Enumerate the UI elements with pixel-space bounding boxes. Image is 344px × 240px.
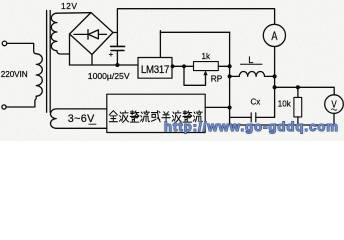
label L underline <box>241 63 263 65</box>
hanzi huo <box>151 111 160 122</box>
wire Cx branch left <box>230 116 252 118</box>
resistor R1 10k body <box>294 97 302 117</box>
wire top rail (bridge + to ammeter) <box>117 9 274 46</box>
capacitor C1 polarity plus <box>109 53 112 56</box>
capacitor Cx plates <box>251 113 256 122</box>
junction dots <box>115 63 300 110</box>
voltmeter tilde <box>331 109 337 110</box>
wire bridge right corner stub <box>113 32 117 34</box>
wire voltmeter bottom lead <box>333 113 335 125</box>
voltmeter PV1 circle <box>325 95 344 114</box>
wire S1 bottom to bridge left corner node <box>57 51 70 54</box>
svg-text:A: A <box>271 31 277 43</box>
svg-text:12V: 12V <box>61 1 77 11</box>
svg-text:L: L <box>248 55 253 65</box>
ammeter PA1 circle <box>263 24 285 46</box>
wire 10k bottom lead <box>297 117 299 125</box>
hanzi zheng <box>130 111 139 123</box>
transformer secondary winding S1 (12V) <box>51 13 57 51</box>
hanzi bo2 <box>172 111 181 123</box>
svg-text:1000µ/25V: 1000µ/25V <box>88 71 130 81</box>
wire 10k top lead <box>297 87 299 97</box>
wire S2 bottom lead to box <box>56 127 107 129</box>
inductor L winding <box>230 72 275 77</box>
hanzi zheng2 <box>183 111 192 123</box>
hanzi liu2 <box>193 111 202 122</box>
wire upper rail (LM317 to right rail) <box>160 31 229 33</box>
wire RP right end to rail <box>218 65 229 67</box>
svg-text:1k: 1k <box>202 52 211 61</box>
wire S2 top lead to box <box>56 108 107 110</box>
svg-text:10k: 10k <box>278 100 292 109</box>
svg-text:220VIN: 220VIN <box>1 70 28 79</box>
wire box output to right rail <box>205 106 229 108</box>
wire primary bottom to J2 <box>6 96 36 107</box>
hanzi ban <box>162 112 170 123</box>
capacitor C1 1000u/25V plates <box>111 45 125 47</box>
svg-text:Cx: Cx <box>251 98 261 107</box>
wire right vertical rail <box>229 32 231 107</box>
terminal J1 (AC input top) <box>2 41 7 46</box>
transformer T1 primary winding <box>36 54 42 96</box>
diode inside bridge <box>74 30 107 40</box>
svg-text:RP: RP <box>211 73 223 83</box>
wire LM317 output to RP <box>172 65 194 67</box>
wire RP wiper loop <box>184 66 206 85</box>
label 3~6V underline <box>89 123 96 125</box>
wire C1 bottom lead <box>116 51 118 66</box>
transformer core <box>47 11 51 113</box>
wire bridge left corner down to minus rail <box>69 34 71 65</box>
svg-text:LM317: LM317 <box>141 64 170 76</box>
wire ammeter bottom down through junctions to Cx corner <box>274 47 276 118</box>
wire minus mid rail to LM317 <box>70 64 139 66</box>
hanzi bo <box>119 111 128 123</box>
svg-text:3~6V: 3~6V <box>68 113 95 125</box>
hanzi liu <box>141 111 150 122</box>
rectifier mode box <box>107 94 205 132</box>
transformer secondary winding S2 (3-6V) <box>50 109 56 128</box>
wire Cx branch right <box>256 116 275 118</box>
wire bridge bottom corner down <box>91 55 93 66</box>
wire output rail to voltmeter <box>275 87 335 95</box>
wire bottom rail <box>230 108 334 126</box>
wire J1 to primary top <box>7 43 36 53</box>
bridge rectifier B1 (diamond) <box>70 13 114 55</box>
svg-text:http://www.go-gddq.com: http://www.go-gddq.com <box>164 119 339 134</box>
potentiometer RP body (1k) <box>194 62 219 71</box>
svg-text:V: V <box>331 99 336 110</box>
regulator U1 LM317 box <box>138 58 172 79</box>
wire S1 top to bridge top corner <box>57 12 91 15</box>
rectifier mode label (hanzi drawn as strokes) <box>109 111 202 123</box>
RP wiper arrow <box>204 71 207 75</box>
terminal J2 (AC input bottom) <box>2 105 6 109</box>
wire LM317 top pin to upper rail <box>159 31 161 58</box>
hanzi quan <box>109 111 117 122</box>
